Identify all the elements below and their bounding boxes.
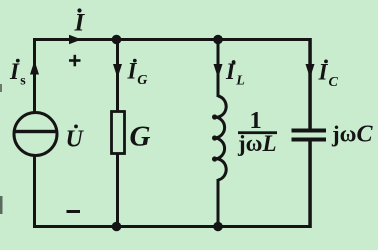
resistor G box <box>112 112 125 154</box>
svg-text:C: C <box>329 75 339 90</box>
wire G branch lower <box>116 153 119 228</box>
wire G branch upper <box>116 38 119 112</box>
node junction bottom G <box>112 222 122 232</box>
capacitor C bottom plate <box>292 138 327 142</box>
label IL <box>225 59 245 89</box>
current source Is circle <box>14 113 57 156</box>
wire L branch upper <box>217 38 220 97</box>
svg-text:1: 1 <box>250 107 262 134</box>
capacitor C top plate <box>292 129 327 133</box>
minus sign <box>67 210 81 213</box>
svg-text:I: I <box>318 60 329 85</box>
wire top horizontal <box>33 38 312 41</box>
svg-text:I: I <box>9 59 20 84</box>
svg-text:U: U <box>66 127 85 153</box>
node junction top L <box>213 35 223 45</box>
arrow current I (right) on top wire <box>69 35 82 44</box>
svg-text:jωL: jωL <box>237 131 277 156</box>
arrow current IC (down) <box>306 64 315 78</box>
inductor L coil <box>214 96 226 180</box>
current source bar <box>15 130 56 133</box>
svg-text:s: s <box>20 74 26 89</box>
label IC <box>318 60 339 91</box>
wire left vertical lower <box>33 155 36 228</box>
coil cusp blobs <box>212 114 217 119</box>
arrow current Is (up) on left wire <box>30 61 39 75</box>
label U (voltage) <box>66 125 85 153</box>
wire left vertical upper <box>33 38 36 113</box>
node junction bottom L <box>213 222 223 232</box>
plus sign <box>69 55 81 67</box>
wire right vertical upper <box>308 38 312 129</box>
svg-text:G: G <box>130 121 151 153</box>
wire bottom horizontal <box>33 225 312 228</box>
svg-text:G: G <box>137 73 147 88</box>
arrow current IL (down) <box>214 64 223 78</box>
arrow current IG (down) <box>113 64 122 78</box>
svg-text:I: I <box>127 59 138 84</box>
svg-text:L: L <box>235 74 245 89</box>
label IG <box>127 59 148 89</box>
scan smudge left edge <box>0 196 3 214</box>
svg-text:jωC: jωC <box>331 122 373 148</box>
svg-text:I: I <box>74 10 86 37</box>
node junction top G <box>112 35 122 45</box>
value label 1/jwL fraction <box>237 107 277 156</box>
label Is (source current) <box>9 59 26 89</box>
label I (top current) <box>74 8 86 36</box>
wire L branch lower <box>217 179 220 228</box>
wire right vertical lower <box>308 141 312 228</box>
